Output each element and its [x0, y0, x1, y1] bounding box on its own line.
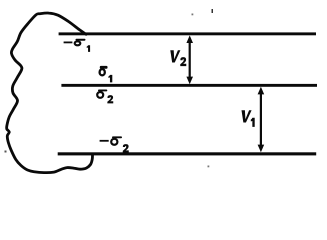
- label V2 subscript 2: [180, 57, 186, 66]
- label V2: [168, 50, 180, 62]
- scan speck left: [5, 151, 7, 153]
- label sigma2 sigma glyph: [97, 90, 107, 98]
- label sigma1 subscript 1: [108, 75, 112, 83]
- V1 dimension arrow (double headed, between middle and bottom plates): [258, 87, 265, 152]
- label V1 subscript 1: [251, 118, 255, 127]
- label V1: [239, 110, 251, 122]
- label -sigma1 sigma glyph: [75, 39, 86, 46]
- scan speck near top 2: [192, 14, 194, 16]
- conductor blob outline: [7, 13, 93, 173]
- plate line bottom (charge -sigma2): [58, 152, 317, 155]
- scan speck below bottom line: [208, 166, 210, 168]
- label -sigma1 minus sign: [64, 42, 73, 44]
- V2 dimension arrow (double headed, between top and middle plates): [186, 35, 193, 84]
- label sigma1 sigma glyph: [100, 66, 108, 75]
- label -sigma2 sigma glyph: [111, 136, 122, 144]
- scan speck near top: [212, 9, 214, 13]
- label -sigma2 minus sign: [100, 140, 109, 142]
- plate line top (charge -sigma1): [59, 32, 316, 35]
- label -sigma1 subscript 1: [87, 45, 90, 52]
- label -sigma2 subscript 2: [123, 144, 129, 152]
- plate line middle (charges sigma1 / sigma2): [61, 84, 317, 87]
- label sigma2 subscript 2: [107, 95, 113, 103]
